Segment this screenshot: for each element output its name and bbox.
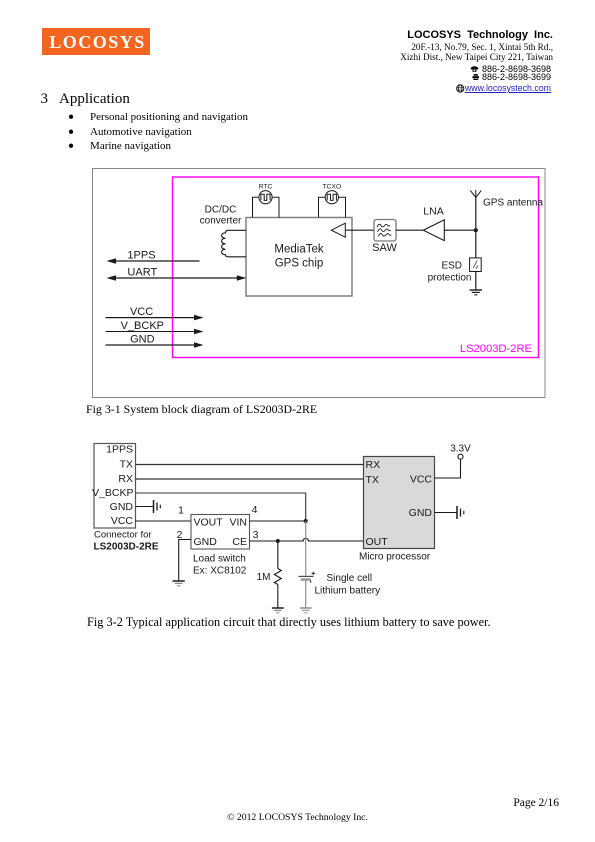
label GPS antenna [483,198,543,209]
svg-text:GND: GND [110,501,134,513]
V_BCKP input arrow [106,329,204,335]
battery BT1 single cell lithium [298,572,315,583]
wire VIN to battery node [250,520,306,522]
svg-text:Load switch: Load switch [193,553,246,564]
node VIN junction [304,519,308,523]
label Connector for LS2003D-2RE [94,530,159,553]
svg-text:1PPS: 1PPS [127,249,155,261]
label SAW [372,242,397,254]
svg-text:RX: RX [118,473,133,485]
Fig 3-2 application circuit [85,435,485,620]
header right block [407,30,553,41]
ground (micro GND, sideways) [457,506,464,519]
label LS2003D-2RE [460,343,532,355]
svg-text:protection: protection [428,273,472,284]
ground (connector GND, sideways) [154,500,161,513]
label Single cell Lithium battery [315,573,381,597]
svg-text:1M: 1M [257,572,271,583]
footer [0,797,559,809]
wire antenna node to ESD [475,230,477,258]
wire RX to micro TX [136,478,364,480]
svg-text:GND: GND [409,507,433,519]
ground (load switch) [173,581,185,586]
svg-text:RX: RX [366,459,381,471]
label UART [127,266,157,278]
label Micro processor [359,552,431,563]
GPS antenna ANT1 [470,190,481,230]
label Load switch Ex: XC8102 [193,553,247,576]
ground (battery) [300,608,312,613]
connector J1 for LS2003D-2RE [92,443,135,528]
svg-text:GND: GND [130,334,155,346]
3.3V supply terminal [450,443,471,459]
svg-text:1PPS: 1PPS [106,443,133,455]
svg-text:ESD: ESD [441,261,462,272]
svg-text:V_BCKP: V_BCKP [121,320,164,332]
pin 4 label [252,504,258,516]
label VCC [130,306,153,318]
wire CE to micro OUT with hop over battery wire [250,538,364,541]
label V_BCKP [121,320,164,332]
internal LNA amplifier (inside chip) [331,223,345,237]
label 1M [257,572,271,583]
ground (resistor) [272,608,284,613]
wire GND pin stub [136,506,154,508]
MediaTek GPS chip U1 [246,218,352,297]
svg-text:TX: TX [120,458,133,470]
UART bidirectional arrow [107,275,247,281]
svg-text:Micro processor: Micro processor [359,552,431,563]
wire 3.3V to micro VCC [435,459,461,478]
DC/DC converter label [200,205,242,227]
svg-text:Lithium battery: Lithium battery [315,586,381,597]
wire V_BCKP to VIN node [136,493,306,521]
inductor L1 (DC/DC) [222,230,247,256]
resistor R1 1M [274,541,281,608]
svg-text:GPS chip: GPS chip [275,258,324,270]
svg-text:3: 3 [253,529,259,541]
svg-text:4: 4 [252,504,258,516]
label 1PPS [127,249,155,261]
ESD protection D1 [470,258,482,272]
wire VCC to VOUT [136,520,192,522]
label RTC [259,184,273,191]
svg-text:V_BCKP: V_BCKP [92,487,133,499]
ground (antenna ESD) [470,290,482,295]
svg-text:Single cell: Single cell [327,573,373,584]
bullet list [68,110,248,154]
svg-text:OUT: OUT [366,536,389,548]
node resistor junction on CE line [276,539,280,543]
svg-text:VCC: VCC [111,515,134,527]
wire SAW to LNA [396,229,423,231]
svg-text:VCC: VCC [410,473,433,485]
svg-text:GPS antenna: GPS antenna [483,198,543,209]
svg-text:Connector for: Connector for [94,530,152,541]
svg-text:RTC: RTC [259,184,273,191]
svg-text:DC/DC: DC/DC [205,205,237,216]
TCXO crystal Y2 [319,191,346,218]
svg-text:GND: GND [194,536,218,548]
label TCXO [322,184,341,191]
svg-text:TCXO: TCXO [322,184,341,191]
label ESD protection [428,261,472,284]
svg-text:TX: TX [366,474,379,486]
label GND [130,334,155,346]
wire chip to SAW [345,229,374,231]
svg-text:1: 1 [178,505,184,517]
wire LNA to antenna node [444,229,476,231]
svg-text:VOUT: VOUT [194,516,224,528]
svg-text:LS2003D-2RE: LS2003D-2RE [94,542,159,553]
svg-text:VCC: VCC [130,306,153,318]
micro processor U3 [364,457,435,549]
pin 3 label [253,529,259,541]
wire ESD to ground [475,272,477,291]
battery wire to ground [305,580,307,608]
svg-text:MediaTek: MediaTek [274,244,323,256]
svg-text:LNA: LNA [423,206,443,218]
pin 2 label [177,529,183,541]
SAW filter FL1 [374,220,396,242]
battery wire from VIN node down [305,521,307,576]
outer border of figure [93,169,546,398]
wire TX to micro RX [136,464,364,466]
svg-text:CE: CE [232,536,247,548]
wire load switch GND to ground [179,540,191,581]
svg-text:SAW: SAW [372,242,397,254]
VCC input arrow [106,315,204,321]
GND input arrow [106,342,204,348]
svg-text:LS2003D-2RE: LS2003D-2RE [460,343,532,355]
svg-text:converter: converter [200,216,242,227]
node antenna junction [474,228,478,232]
section heading [41,91,130,108]
module boundary (magenta) [173,177,539,358]
wire micro GND stub [435,512,457,514]
svg-text:3.3V: 3.3V [450,443,471,454]
RTC crystal Y1 [253,191,280,218]
1PPS output arrow [107,258,200,264]
caption fig 3-2 [87,615,491,630]
pin 1 label [178,505,184,517]
LNA amplifier [423,220,444,241]
load switch U2 XC8102 [191,515,250,550]
label LNA [423,206,443,218]
svg-text:Ex: XC8102: Ex: XC8102 [193,565,247,576]
LOCOSYS logo [42,28,150,55]
svg-text:VIN: VIN [229,516,247,528]
caption fig 3-1 [86,402,317,417]
svg-text:UART: UART [127,266,157,278]
Fig 3-1 block diagram [85,165,560,410]
